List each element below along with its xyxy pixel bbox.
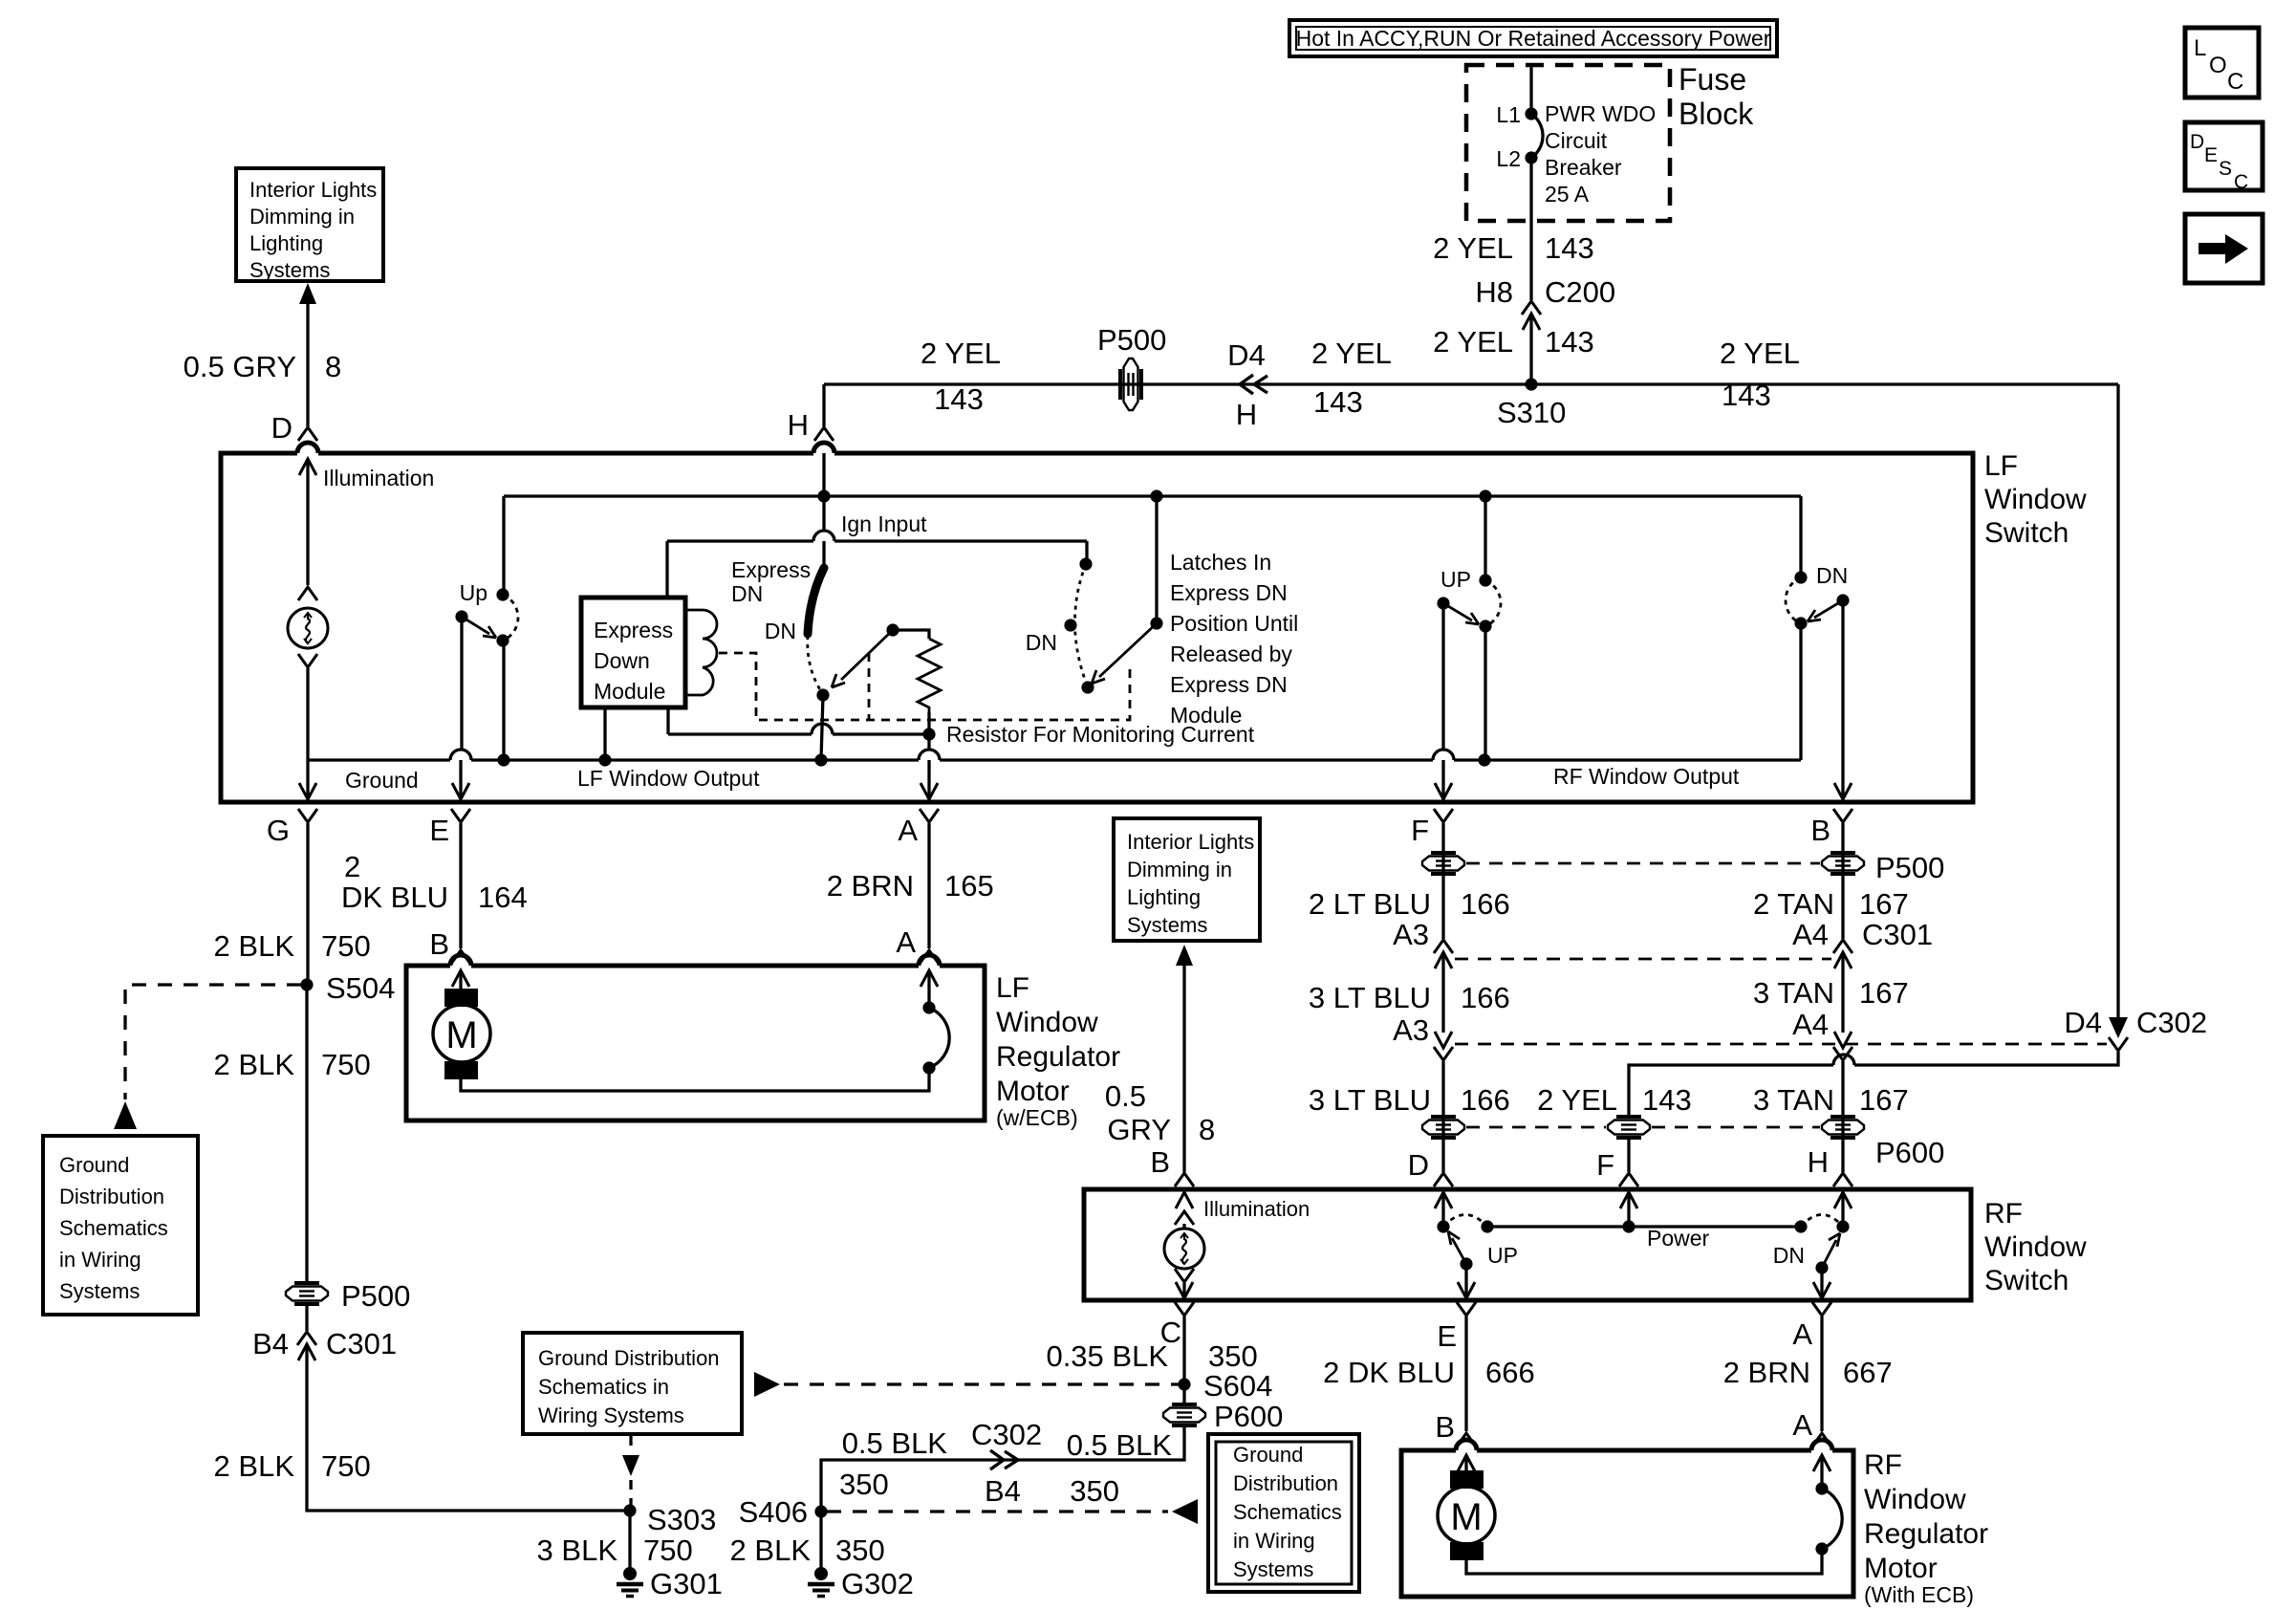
wire: lower contact to ground bus [502,641,505,760]
reference arrow (from left ground box) [754,1372,780,1397]
svg-text:2 BLK: 2 BLK [730,1534,812,1567]
svg-text:A4: A4 [1792,918,1829,951]
svg-text:H: H [1236,398,1257,431]
RF power bus [1487,1225,1801,1228]
reference box: Interior Lights Dimming in Lighting Systems (middle) [1114,818,1260,941]
svg-text:RF: RF [1984,1198,2023,1229]
svg-text:Fuse: Fuse [1679,62,1746,97]
hump over express pivot wire [812,724,833,734]
svg-text:D: D [2190,131,2204,153]
ignition input wire pin H [822,453,825,531]
svg-text:B4: B4 [252,1327,289,1360]
svg-text:2 BRN: 2 BRN [1723,1356,1810,1389]
svg-text:750: 750 [321,1449,371,1483]
svg-text:A3: A3 [1393,1013,1429,1047]
svg-text:164: 164 [478,881,528,914]
svg-text:Lighting: Lighting [1127,885,1201,909]
svg-text:D4: D4 [1227,338,1266,372]
svg-text:0.35 BLK: 0.35 BLK [1046,1339,1168,1373]
LF window output link: module to resistor node [668,732,929,735]
Up switch lower contact [496,634,509,646]
ECB contact lower [922,1061,935,1074]
svg-text:D: D [271,411,292,445]
latch arm wire from ignition bus [1155,496,1158,623]
RF motor pin B terminal [1457,1433,1476,1447]
svg-text:P500: P500 [1097,323,1166,357]
svg-text:Systems: Systems [1127,913,1207,937]
motor M: top brush cap [444,989,478,1007]
wire: pin D to reference box [306,300,309,426]
svg-text:B: B [429,927,449,961]
pin G terminal below box [298,809,317,822]
svg-text:Illumination: Illumination [1203,1197,1310,1221]
illumination lamp LF [288,608,328,648]
wire: pin C to S604 [1182,1316,1185,1384]
chevron below RF lamp [1175,1269,1194,1282]
connector chevron above lamp [298,587,317,600]
svg-text:A3: A3 [1393,918,1429,951]
wire: link to module bottom right pin [666,707,669,734]
svg-text:P500: P500 [1875,851,1944,884]
UP left contact [1437,1220,1449,1232]
wire: UP pivot to pin F [1441,603,1444,750]
svg-text:Systems: Systems [249,258,330,282]
RF pin D terminal [1434,1173,1453,1186]
svg-text:B: B [1810,814,1830,847]
svg-text:A: A [1792,1408,1812,1442]
RF pin C terminal [1175,1302,1194,1316]
splice S504 [300,978,313,990]
hump over pin A wire [919,750,940,760]
svg-text:B: B [1435,1410,1455,1444]
ground G302 [808,1567,834,1597]
DN switch: top contact wire [1799,496,1802,577]
forward arrow box [2185,214,2263,283]
svg-text:M: M [445,1014,477,1056]
wire: DN pivot to pin B [1841,600,1844,799]
splice S406 [814,1505,827,1517]
reference box: Interior Lights Dimming in Lighting Systems [236,168,383,282]
motor M: bottom brush cap [444,1061,478,1079]
svg-text:A: A [896,925,916,959]
svg-text:350: 350 [1208,1339,1258,1373]
RF pin E terminal [1457,1302,1476,1316]
connector chevron below lamp [298,654,317,667]
svg-text:DN: DN [765,619,796,643]
dashed link: center box to S303 [629,1436,632,1451]
svg-text:Express: Express [731,557,811,582]
Up switch moving arm [462,617,496,638]
connector C302 terminal D4 (right) [2109,1017,2128,1038]
svg-text:Distribution: Distribution [59,1185,164,1208]
reference box: Ground Distribution Schematics in Wiring Systems (right) [1208,1434,1359,1592]
svg-text:Block: Block [1679,97,1754,131]
arrow into reference box [299,283,316,304]
latch switch top contact [1079,557,1092,570]
svg-text:2 BLK: 2 BLK [214,1449,295,1483]
ignition bus [504,494,1801,497]
wire: S504 down to P500 [305,985,308,1283]
svg-text:B: B [1150,1145,1170,1179]
wire: S303 to G301 [628,1511,631,1574]
RF pin B terminal [1175,1173,1194,1186]
resistor for monitoring current (zigzag) [918,639,941,712]
illumination lamp RF [1164,1229,1204,1269]
svg-text:2: 2 [344,850,360,883]
mechanical link (dashed) from coil [719,653,1130,720]
svg-text:C301: C301 [1862,918,1933,951]
svg-text:O: O [2209,53,2227,78]
svg-text:Ground: Ground [345,768,419,793]
wire: pin G down to S504 [306,823,309,985]
svg-text:H: H [1808,1145,1829,1179]
svg-text:in Wiring: in Wiring [59,1248,141,1272]
svg-text:UP: UP [1487,1243,1518,1268]
wire: RF pin A to motor [1820,1316,1823,1431]
svg-text:(w/ECB): (w/ECB) [996,1105,1078,1130]
inline connector P500 (grommet) on 2 YEL [1120,359,1141,410]
DN pivot [1836,594,1849,606]
wire: lamp to ground bus [306,668,309,760]
svg-text:Latches In: Latches In [1170,550,1271,575]
svg-text:UP: UP [1440,567,1471,592]
fuse block dashed outline [1466,65,1670,221]
svg-text:2 LT BLU: 2 LT BLU [1309,887,1431,921]
svg-text:3 LT BLU: 3 LT BLU [1309,981,1431,1014]
svg-text:S406: S406 [739,1495,808,1529]
svg-text:L2: L2 [1496,146,1521,171]
reference box: Ground Distribution Schematics in Wiring Systems (left) [43,1136,198,1315]
svg-text:143: 143 [934,382,984,416]
motor pin A terminal [920,950,939,964]
svg-text:L1: L1 [1496,102,1521,127]
pin H terminal [814,427,834,441]
svg-text:750: 750 [321,929,371,963]
wire: pin E to motor pin B [459,823,462,948]
svg-text:Ground Distribution: Ground Distribution [538,1346,720,1370]
RF motor M: body [1438,1487,1495,1544]
wire: C302 D4 to 2 YEL link [1629,1052,2118,1117]
svg-text:A4: A4 [1792,1008,1829,1041]
svg-text:750: 750 [321,1048,371,1081]
svg-text:3 TAN: 3 TAN [1753,1083,1834,1117]
svg-text:350: 350 [835,1534,885,1567]
svg-text:E: E [2204,144,2218,166]
wire: P500 to C301 [305,1304,308,1331]
junction latch arm feed [1150,490,1162,502]
inline connector P500 (F) [1422,853,1464,874]
svg-text:Schematics: Schematics [59,1216,168,1240]
connector C301 terminal A4 (B column) [1833,940,1852,953]
svg-text:DN: DN [1026,630,1057,655]
pin F terminal below box [1434,809,1453,822]
DN moving arm [1808,600,1843,621]
Up switch travel arc (dashed) [503,595,518,641]
breaker element arc [1531,114,1543,158]
port bump pin H [813,443,834,453]
svg-text:H: H [788,408,809,442]
module coil connector [685,610,717,695]
wire: right vertical drop to C302 D4 [2116,384,2119,1033]
C302 mating dashed line [1455,1043,2107,1046]
inline connector P500 (B) [1822,853,1864,874]
wire: C301 to C302 (B column) [1841,952,1844,1033]
svg-text:P600: P600 [1214,1400,1283,1433]
Up switch (LF window) top contact wire [502,496,505,595]
svg-text:666: 666 [1485,1356,1535,1389]
svg-text:Schematics in: Schematics in [538,1375,669,1399]
svg-text:S: S [2219,158,2232,180]
RF ECB contact lower [1815,1542,1828,1555]
svg-text:0.5 GRY: 0.5 GRY [184,350,296,383]
ground G301 [617,1567,643,1597]
svg-text:G: G [267,814,290,847]
port bump pin D [297,443,318,453]
DN common contact [1815,1261,1828,1273]
svg-text:L: L [2194,35,2206,61]
arrow into motor pin A [921,970,938,987]
RF motor M: top brush cap [1450,1470,1484,1489]
svg-text:S310: S310 [1497,396,1566,429]
svg-text:Ign Input: Ign Input [841,511,927,536]
dashed reference link from S406 [827,1510,1168,1512]
DN travel arc (dashed) [1801,1215,1843,1228]
svg-text:RF Window Output: RF Window Output [1553,764,1740,789]
svg-text:2 DK BLU: 2 DK BLU [1323,1356,1455,1389]
svg-text:Interior Lights: Interior Lights [1127,830,1254,854]
motor pin B terminal [451,950,470,964]
UP pivot [1437,597,1449,609]
wire: node to resistor [893,630,929,639]
hump of 2 YEL link over B column [1833,1055,1854,1065]
RF ECB contact upper [1815,1482,1828,1494]
P600 mating dashed line [1466,1126,1820,1129]
svg-text:P600: P600 [1875,1136,1944,1169]
svg-text:667: 667 [1843,1356,1893,1389]
wire: RF ECB to motor pin A [1820,1455,1823,1489]
UP travel arc (dashed) [1443,1215,1487,1228]
svg-text:M: M [1450,1496,1482,1538]
wire: S406 to G302 [819,1512,822,1574]
port bump motor pin B [1456,1440,1477,1450]
svg-text:C302: C302 [2136,1006,2207,1039]
svg-text:S303: S303 [647,1503,716,1536]
illumination feed arrow (pin D inside) [299,459,316,475]
svg-text:C200: C200 [1545,275,1615,309]
DESC box [2185,122,2263,193]
svg-text:0.5 BLK: 0.5 BLK [842,1426,948,1460]
junction UP top contact feed [1479,490,1491,502]
wire: RF pin E to motor [1464,1316,1467,1431]
wire: fuse feed into breaker [1529,65,1532,114]
RF UP switch: pin D wire [1435,1192,1452,1208]
inline connector P600 (F column) [1608,1117,1650,1138]
hump of ign wire over module bus [813,531,834,541]
svg-text:3 LT BLU: 3 LT BLU [1309,1083,1431,1117]
svg-text:B4: B4 [985,1474,1021,1508]
svg-text:DN: DN [1816,563,1848,588]
svg-text:25 A: 25 A [1545,182,1590,207]
wire: C301 down and over to S303 [307,1344,630,1511]
UP moving arm [1448,1231,1466,1264]
wire: B column to P600 [1841,1061,1844,1172]
connector C302 inline >> [990,1450,1018,1469]
wire: F column to P600 [1441,1061,1444,1172]
express DN switch blade (thick) [808,568,824,634]
module wire top: feed from bus [665,541,668,598]
svg-text:Express DN: Express DN [1170,672,1288,697]
splice S310 [1525,378,1537,390]
svg-text:Released by: Released by [1170,642,1292,666]
wire: express pivot to ground bus [821,695,823,760]
junction on ignition bus [817,490,830,502]
svg-text:Motor: Motor [996,1076,1070,1107]
wire: to motor brush [459,970,462,990]
svg-text:Systems: Systems [59,1279,140,1303]
svg-text:3 BLK: 3 BLK [537,1534,618,1567]
svg-text:G301: G301 [650,1567,723,1600]
RF motor box [1401,1440,1853,1597]
svg-text:Window: Window [1984,1231,2087,1263]
svg-text:167: 167 [1859,887,1909,921]
UP lower contact [1479,620,1491,632]
wire: P600 to RF pin F [1627,1138,1630,1172]
svg-text:A: A [1792,1317,1812,1351]
P500 mating dashed line [1466,862,1820,865]
svg-text:Systems: Systems [1233,1557,1313,1581]
svg-text:in Wiring: in Wiring [1233,1529,1315,1553]
wire: pin D to lamp [306,459,309,585]
node: arm / resistor top [886,623,899,636]
svg-text:G302: G302 [841,1567,914,1600]
Express Down Module box [581,598,685,707]
inline connector P600 (C column) [1182,1384,1185,1404]
dashed reference link into S604 [784,1382,1179,1385]
ground bus inside LF switch [308,758,1801,761]
motor M: body [433,1005,490,1062]
svg-text:C301: C301 [326,1327,397,1360]
svg-text:Module: Module [594,679,665,704]
DN bus contact [1794,1220,1807,1232]
svg-text:S504: S504 [326,971,395,1005]
express switch arm from resistor node [832,630,893,687]
RF motor pin A terminal [1812,1433,1831,1447]
svg-text:(With ECB): (With ECB) [1864,1582,1974,1607]
inline connector P600 (H column) [1822,1117,1864,1138]
DN top contact [1794,571,1807,583]
svg-text:LF Window Output: LF Window Output [577,766,760,791]
reference arrow (to right ground box) [1172,1499,1198,1524]
svg-text:2 TAN: 2 TAN [1753,887,1834,921]
wire: DN lower contact to ground bus end [1799,623,1802,760]
pin B illumination arrow [1176,1192,1193,1208]
UP travel arc (dashed) [1485,580,1501,626]
RF ECB breaker arc [1822,1489,1842,1549]
module wire bottom left: to ground bus [603,707,606,760]
svg-text:0.5 BLK: 0.5 BLK [1067,1428,1173,1462]
inline connector P500 (left column) [286,1283,328,1304]
Up switch top contact [496,588,509,600]
svg-text:Motor: Motor [1864,1553,1938,1584]
wire: C200 to S310 [1529,314,1532,384]
arrow into RF motor pin A [1813,1455,1830,1471]
LOC box [2185,28,2259,98]
svg-text:165: 165 [944,869,994,903]
svg-text:LF: LF [996,972,1029,1004]
DN travel arc (dashed) [1786,577,1801,623]
latch DN contact [1064,619,1076,631]
svg-text:RF: RF [1864,1449,1902,1481]
wire: F column pin F down [1441,823,1444,939]
hump over pin F wire [1433,750,1454,760]
port bump motor pin B [450,955,471,966]
connector C200 terminal H8 [1522,301,1541,315]
inline connector D4 / H (C200-style << ) [1240,375,1267,394]
svg-text:2 BLK: 2 BLK [214,929,295,963]
RF pin A terminal [1812,1302,1831,1316]
svg-text:C302: C302 [971,1418,1042,1451]
wire: RF motor bottom loop to breaker [1466,1549,1822,1574]
pin G arrow [299,783,316,799]
svg-text:Ground: Ground [59,1153,129,1177]
svg-text:Illumination: Illumination [323,466,434,490]
mechanical link stub [868,653,871,720]
svg-text:167: 167 [1859,976,1909,1010]
reference arrow (to ground distribution box) [114,1101,137,1129]
svg-text:2 YEL: 2 YEL [1537,1083,1617,1117]
svg-text:Regulator: Regulator [1864,1518,1988,1550]
wire: pin A drop [927,734,930,750]
svg-text:E: E [429,814,449,847]
svg-text:8: 8 [1199,1113,1215,1146]
svg-text:166: 166 [1461,1083,1510,1117]
DN pivot [1836,1220,1849,1232]
wire: ECB to motor pin A [927,970,930,1008]
connector C301 terminal B4 [297,1332,316,1345]
svg-text:2 YEL: 2 YEL [1433,325,1513,359]
connector C301 terminal A3 (F column) [1434,940,1453,953]
DN lower contact [1794,617,1807,629]
svg-text:Window: Window [996,1007,1098,1038]
svg-text:8: 8 [325,350,341,383]
C301 mating dashed line [1455,958,1831,961]
UP switch (RF window): top contact wire [1484,496,1486,580]
svg-text:Switch: Switch [1984,1265,2069,1296]
ECB breaker arc [929,1008,949,1068]
svg-text:0.5: 0.5 [1105,1079,1146,1113]
svg-text:143: 143 [1722,379,1771,412]
circuit breaker PWR WDO 25A: terminal L1 [1525,107,1537,120]
svg-text:350: 350 [1070,1474,1119,1508]
express module feed bus [667,539,1087,542]
hump over pin E wire [450,750,471,760]
svg-text:LF: LF [1984,450,2018,482]
svg-text:Module: Module [1170,703,1242,728]
svg-text:143: 143 [1545,231,1594,265]
svg-text:DK BLU: DK BLU [341,881,448,914]
wire: C301 to C302 (F column) [1441,952,1444,1033]
RF DN switch: pin H wire [1834,1192,1852,1208]
svg-text:Up: Up [460,580,487,605]
svg-text:Position Until: Position Until [1170,611,1298,636]
svg-text:2 YEL: 2 YEL [921,337,1001,370]
svg-text:C: C [2234,171,2248,193]
pin E terminal below box [451,809,470,822]
svg-text:Express DN: Express DN [1170,580,1288,605]
svg-text:3 TAN: 3 TAN [1753,976,1834,1010]
latch switch top contact wire [1085,541,1088,564]
svg-text:Circuit: Circuit [1545,128,1608,153]
